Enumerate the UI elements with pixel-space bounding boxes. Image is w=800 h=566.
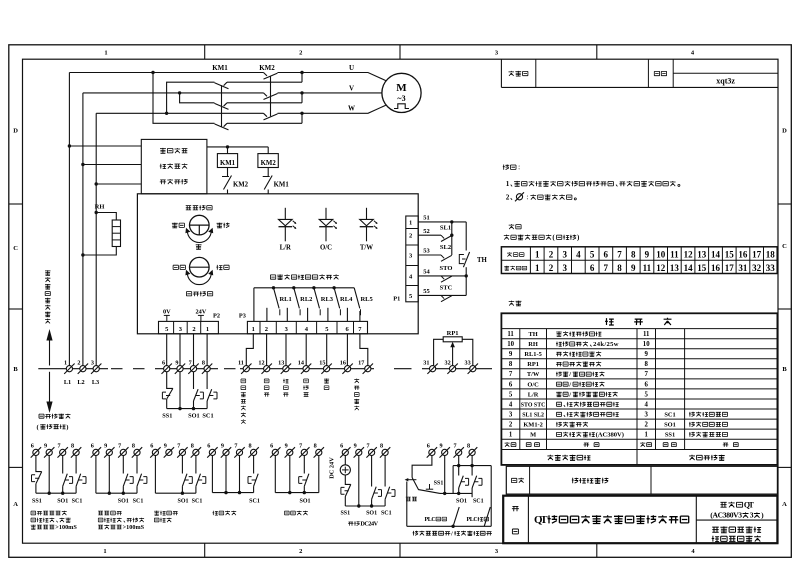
G7 close button SC1 (472, 476, 477, 498)
svg-text:SC1: SC1 (72, 498, 83, 504)
label shuoming notes title (503, 165, 520, 170)
svg-text:RL2: RL2 (300, 296, 312, 303)
zone number labels bottom (103, 548, 695, 555)
wire P3-6 to terminal 16 (346, 334, 348, 366)
svg-text:4: 4 (576, 250, 581, 260)
svg-text:14: 14 (711, 250, 721, 260)
terminal 8 (alt) (248, 447, 258, 457)
svg-text:6: 6 (644, 381, 648, 388)
label power box line3 duanxiang-baohu (160, 179, 188, 184)
terminal 14 (301, 364, 311, 374)
G3 wire 8 upper (195, 456, 197, 474)
svg-text:5: 5 (644, 391, 648, 398)
label beizhu remark (512, 478, 524, 483)
svg-text:33: 33 (465, 359, 471, 366)
svg-text:1: 1 (64, 359, 67, 366)
svg-text:T/W: T/W (360, 244, 373, 251)
svg-text:3: 3 (562, 263, 567, 273)
terminal 9 (175, 364, 185, 374)
terminal row wire segment B (155, 368, 218, 370)
G6 close button SC1 (385, 487, 390, 506)
wire KM1 row1 up-join (301, 73, 303, 83)
label overall basic type (572, 478, 609, 484)
SO1 operator (196, 392, 204, 399)
terminal 8 (202, 364, 212, 374)
svg-text:SO1: SO1 (299, 498, 310, 504)
svg-text:9: 9 (104, 443, 107, 450)
svg-text:TH: TH (477, 257, 488, 264)
svg-text:9: 9 (644, 351, 648, 358)
wire P3-5 to terminal 15 (326, 334, 328, 366)
contactor KM2 main contacts (264, 73, 303, 120)
terminal 12 (262, 364, 272, 374)
G4 wire 7 (239, 456, 241, 493)
wire KM1 row2 up-join (301, 93, 303, 103)
svg-text:QT: QT (534, 514, 548, 526)
svg-text:6: 6 (31, 443, 34, 450)
svg-text:16: 16 (738, 250, 748, 260)
G1 node 7 (61, 492, 64, 495)
svg-text:T/W: T/W (527, 371, 540, 378)
node junction L1 to crossover (151, 71, 154, 74)
svg-text:SC1: SC1 (664, 411, 675, 418)
label ming (512, 506, 519, 511)
svg-text:6: 6 (590, 263, 595, 273)
G7 selector operator T (426, 484, 433, 489)
svg-text:33: 33 (766, 263, 776, 273)
label 24V with stub (195, 309, 206, 322)
G7 manual bus (440, 492, 472, 494)
svg-text:DC 24V: DC 24V (329, 457, 336, 479)
label PLC open (425, 517, 447, 523)
caption G6 (348, 521, 379, 528)
G4 wire 8 upper (253, 456, 255, 474)
node stub L1 to power box (68, 144, 71, 147)
terminal 6 (alt) (150, 447, 160, 457)
svg-text:KM2: KM2 (261, 160, 277, 167)
component row 5 (509, 391, 649, 398)
svg-text:32: 32 (445, 359, 451, 366)
svg-text:/: / (568, 391, 571, 398)
terminal 7 (alt) (118, 447, 128, 457)
open button SO1 (NO) (194, 389, 199, 408)
terminal row wire segment C (240, 368, 374, 370)
svg-text:9: 9 (44, 443, 47, 450)
label applicable line2 (710, 511, 764, 520)
interlock NC contact KM1 under KM2 coil (263, 168, 273, 194)
svg-text:D: D (782, 128, 787, 135)
wire 55 (418, 294, 466, 296)
wire P2-1 to terminal 8 (206, 334, 208, 366)
svg-text:9: 9 (221, 443, 224, 450)
node 51 branch (450, 220, 453, 223)
svg-text:2: 2 (299, 50, 302, 57)
svg-text:8: 8 (248, 443, 251, 450)
svg-text:2: 2 (77, 359, 80, 366)
svg-text:SC1: SC1 (202, 413, 213, 420)
control board main box (137, 194, 418, 334)
G1 stop button SS1 (NC) (36, 472, 42, 494)
svg-text:QT: QT (744, 500, 755, 509)
svg-text:5: 5 (590, 250, 595, 260)
control knob SA2 (190, 257, 210, 277)
terminal 15 (321, 364, 331, 374)
svg-text:1: 1 (409, 219, 412, 226)
svg-text:9: 9 (645, 250, 650, 260)
control knob arrows (185, 270, 213, 285)
svg-text:L/R: L/R (528, 391, 539, 398)
svg-text:SL1 SL2: SL1 SL2 (522, 412, 544, 418)
label table2 title biaoer (509, 301, 522, 306)
wire stub L1 to power box (69, 145, 141, 147)
G1 wire 6 to SS1 (36, 456, 42, 472)
node bus-9 (178, 407, 181, 410)
svg-text:SO1: SO1 (456, 499, 467, 505)
svg-text:5: 5 (509, 391, 513, 398)
svg-text:SC1: SC1 (381, 510, 392, 516)
caption G1 line1 (31, 511, 67, 516)
svg-text:7: 7 (299, 443, 302, 450)
svg-text:/: / (450, 530, 453, 537)
wire crossover L3 up to KM1 row1 (167, 82, 215, 113)
G7 wire 6 jog left (412, 456, 432, 478)
G4 wire 9 (225, 456, 227, 493)
svg-text:KM2: KM2 (259, 64, 275, 72)
wire terminal 7 to SO1 (193, 372, 195, 389)
terminal 8 (alt) (467, 447, 477, 457)
terminal 31 (427, 364, 437, 374)
wire P3 pin1 riser (253, 288, 255, 322)
G7 auto loop bottom bus (407, 525, 491, 527)
G7 node link-7 (457, 464, 460, 467)
svg-text:L2: L2 (77, 379, 84, 386)
svg-text:17: 17 (358, 359, 364, 366)
svg-text:7: 7 (509, 371, 513, 378)
wire motor lead V (302, 92, 382, 94)
terminal 16 (342, 364, 352, 374)
G6 stop button SS1 (NC) (345, 484, 351, 506)
svg-text:L1: L1 (64, 379, 71, 386)
node bus-7 (192, 407, 195, 410)
wire RP1 left leg (434, 339, 444, 365)
interlock NC contact KM2 under KM1 coil (222, 168, 232, 194)
svg-text:RH: RH (528, 341, 538, 348)
caption G3 line1 (154, 511, 178, 516)
svg-text:8: 8 (314, 443, 317, 450)
svg-text:8: 8 (202, 359, 205, 366)
svg-text:52: 52 (423, 228, 430, 235)
svg-text:7: 7 (177, 443, 180, 450)
G2 wire 6 (95, 456, 97, 494)
svg-text:7: 7 (234, 443, 237, 450)
svg-text:17: 17 (725, 263, 735, 273)
terminal row dash C-D (394, 368, 412, 370)
G7 node bus-SO1 (457, 492, 460, 495)
terminal 7 (alt) (299, 447, 309, 457)
svg-text:9: 9 (285, 443, 288, 450)
terminal 9 (alt) (354, 447, 364, 457)
component row 10 (507, 341, 650, 348)
G5 wire 7 upper (303, 456, 305, 474)
terminal 32 (447, 364, 457, 374)
svg-text:8: 8 (467, 443, 470, 450)
G3 node 7 (181, 492, 184, 495)
LED indicator O/C (319, 208, 337, 242)
svg-text:4: 4 (509, 401, 513, 408)
label terminal 14 function (over torque) (303, 379, 309, 396)
svg-text:/: / (568, 371, 571, 378)
motor waveform symbol (394, 104, 409, 109)
svg-text:1: 1 (104, 50, 107, 57)
svg-text:SS1: SS1 (434, 480, 444, 486)
terminal 8 (alt) (191, 447, 201, 457)
svg-text:7: 7 (58, 443, 61, 450)
SS1 operator (162, 392, 170, 399)
svg-text:10: 10 (643, 341, 650, 348)
svg-text:A: A (782, 501, 787, 508)
node coil branch KM1 (226, 145, 229, 148)
node junction L3 to crossover up (165, 112, 168, 115)
svg-text:16: 16 (340, 359, 346, 366)
wire P3-3 to terminal 13 (285, 334, 287, 366)
label power box line1 dianyuan-bianhuan (160, 148, 187, 154)
motor M1 circle (382, 73, 421, 112)
wire stub L3 to power box (96, 183, 141, 185)
G6 node 9 (357, 504, 360, 507)
G1 common bus (36, 492, 76, 494)
component row 7 (509, 371, 649, 378)
wire P2-2 to terminal 7 (193, 334, 195, 366)
svg-text:54: 54 (423, 269, 430, 276)
svg-text:RL5: RL5 (360, 296, 373, 303)
terminal table row1 numbers (535, 250, 775, 260)
svg-text:9: 9 (509, 351, 513, 358)
wire 53 (418, 254, 441, 256)
svg-text:RP1: RP1 (527, 361, 539, 368)
wire thermal branch upper (465, 222, 467, 251)
wire KM1 coil drop (227, 147, 229, 154)
label yuancheng remote (217, 223, 230, 228)
component row 9 (509, 351, 649, 358)
G3 common bus (155, 492, 196, 494)
top zone ticks (205, 45, 597, 59)
label internal wiring vertical text (45, 270, 51, 323)
terminal 7 (alt) (177, 447, 187, 457)
svg-text:8: 8 (617, 263, 622, 273)
svg-text:17: 17 (752, 250, 762, 260)
title block dividers (528, 496, 777, 544)
labels P2 pin numbers (165, 326, 209, 333)
G3 wire 6 (154, 456, 156, 494)
terminal 17 (363, 364, 373, 374)
terminal 2 (78, 364, 88, 374)
relay contact RL4 (328, 286, 341, 321)
svg-text:SO1: SO1 (366, 510, 377, 516)
label selector knob title (186, 205, 212, 210)
G4 wire 6 (211, 456, 213, 493)
svg-text:L/R: L/R (280, 244, 291, 251)
G7 open button SO1 (459, 476, 464, 494)
G1 wire 8 upper (75, 456, 77, 474)
node junction L2 to KM1 row2 (178, 91, 181, 94)
svg-text:2: 2 (299, 548, 302, 555)
contract number table (501, 59, 778, 87)
svg-text:53: 53 (423, 248, 430, 255)
terminal row wire segment A (38, 368, 108, 370)
G5 common bus (275, 492, 319, 494)
G2 wire 7 upper (122, 456, 124, 474)
wire row W phase (96, 112, 263, 114)
torque switch STO (441, 276, 452, 282)
G7 PLC close contact (484, 507, 490, 526)
component row 1 (509, 432, 728, 439)
relay contact RL5 (347, 288, 360, 322)
right zone ticks (778, 204, 791, 467)
component row 4 (509, 401, 649, 408)
node 52 join (450, 234, 453, 237)
svg-text:6: 6 (270, 443, 273, 450)
G5 node 9 (288, 491, 291, 494)
G5 node 7 (303, 491, 306, 494)
svg-text:>100mS: >100mS (123, 524, 145, 531)
svg-text:SS1: SS1 (32, 498, 42, 504)
svg-text:SS1: SS1 (340, 510, 350, 516)
svg-text:): ) (66, 424, 68, 431)
label company line1 (712, 526, 761, 532)
terminal row wire segment D (422, 368, 492, 370)
caption G7 (413, 530, 492, 537)
svg-text:RL1-5: RL1-5 (524, 351, 541, 358)
svg-text:11: 11 (238, 359, 244, 366)
G2 node 9 (108, 492, 111, 495)
SC1 operator (209, 392, 217, 399)
svg-text:PLC: PLC (425, 517, 436, 523)
G1 wire 9 (48, 456, 50, 494)
terminal mapping table grid (501, 247, 777, 274)
G3 wire 7 upper (181, 456, 183, 474)
svg-text:M: M (530, 432, 536, 439)
wire P3 pin7 riser (359, 311, 361, 321)
node KM output V (300, 91, 303, 94)
wire row U phase (top) (69, 72, 263, 74)
terminal 3 (91, 364, 101, 374)
svg-text:13: 13 (697, 250, 707, 260)
svg-text:3: 3 (562, 250, 567, 260)
G3 close button SC1 (196, 474, 201, 494)
svg-text:DC24V: DC24V (360, 521, 378, 528)
label kaifa open-valve (173, 265, 185, 269)
svg-text:31: 31 (423, 359, 429, 366)
G2 common bus (96, 492, 137, 494)
connector P2 box (159, 321, 219, 333)
G1 SO1 operator (65, 477, 73, 484)
wire P2-3 to terminal 9 (179, 334, 181, 366)
G7 wire 8 upper (471, 456, 473, 466)
G6 wire 7 upper (371, 456, 373, 487)
G1 SS1 operator (32, 475, 40, 482)
connector P3 box (247, 321, 367, 333)
G6 SC1 operator (387, 490, 395, 497)
svg-text:12: 12 (684, 250, 694, 260)
wire phase L2 feeder vertical (82, 93, 84, 366)
wire thermal branch lower (465, 276, 467, 296)
G6 open button SO1 (372, 487, 377, 506)
wire 52 (418, 234, 441, 236)
svg-text:1: 1 (206, 326, 209, 333)
wire KM2 coil drop (267, 147, 269, 154)
caption G1 line2 (31, 518, 71, 523)
svg-text:13: 13 (278, 359, 284, 366)
relay contact RL1 (267, 286, 280, 321)
relay contact RL2 (287, 286, 300, 321)
svg-text:7: 7 (189, 359, 192, 366)
svg-text:11: 11 (643, 263, 652, 273)
node KM output W (300, 112, 303, 115)
G5 open button SO1 (304, 474, 309, 493)
svg-text:1: 1 (535, 263, 540, 273)
svg-text:11: 11 (670, 250, 679, 260)
label tuhao drawing no (654, 71, 666, 75)
svg-text:14: 14 (684, 263, 694, 273)
caption G5 (285, 511, 308, 515)
label terminal 16-17 function (monitor relay) (354, 379, 359, 411)
svg-text:SL2: SL2 (440, 244, 451, 251)
svg-text:KM1: KM1 (212, 64, 228, 72)
contactor coil KM1 (217, 154, 237, 168)
G3 SC1 operator (198, 477, 206, 484)
label terminal 12 function (open position) (264, 379, 269, 397)
svg-text:6: 6 (162, 359, 165, 366)
svg-text:32: 32 (752, 263, 762, 273)
component row 6 (509, 381, 649, 388)
node RH top junction on L3 (95, 211, 98, 214)
svg-text:10: 10 (656, 250, 666, 260)
wire crossover L1 down to KM1 row3 (153, 73, 215, 124)
caption G1 line3 (31, 524, 78, 531)
svg-text:16: 16 (711, 263, 721, 273)
local station common bus (167, 408, 207, 410)
label table1 title biaoyi (509, 224, 521, 229)
connector P1 box (406, 216, 418, 302)
svg-text:24V: 24V (195, 309, 206, 316)
G2 open button SO1 (123, 474, 128, 494)
svg-text:SS1: SS1 (665, 432, 675, 439)
label table1 subtitle (504, 234, 580, 242)
G2 SC1 operator (139, 477, 147, 484)
svg-text:12: 12 (656, 263, 666, 273)
contactor coil KM2 (258, 154, 278, 168)
caption G2 line3 (98, 524, 145, 531)
LED indicator L/R (279, 208, 297, 242)
caption G2 line1 (98, 511, 122, 515)
G7 node PLC-open (451, 525, 454, 528)
wire terminal 6 to SS1 (167, 372, 173, 389)
label 0V with stub (163, 309, 171, 322)
G7 wire 7 upper (458, 456, 460, 466)
svg-text:15: 15 (725, 250, 735, 260)
terminal 13 (281, 364, 291, 374)
terminal 9 (alt) (104, 447, 114, 457)
label note 1 (506, 180, 680, 188)
wire 54 (418, 275, 466, 277)
svg-text:1: 1 (644, 432, 648, 439)
wire RH bottom (83, 247, 116, 256)
title block outer box (503, 496, 777, 544)
svg-text:1: 1 (506, 180, 510, 188)
svg-text:15: 15 (319, 359, 325, 366)
label control knob title (186, 291, 212, 296)
svg-text:7: 7 (366, 443, 369, 450)
